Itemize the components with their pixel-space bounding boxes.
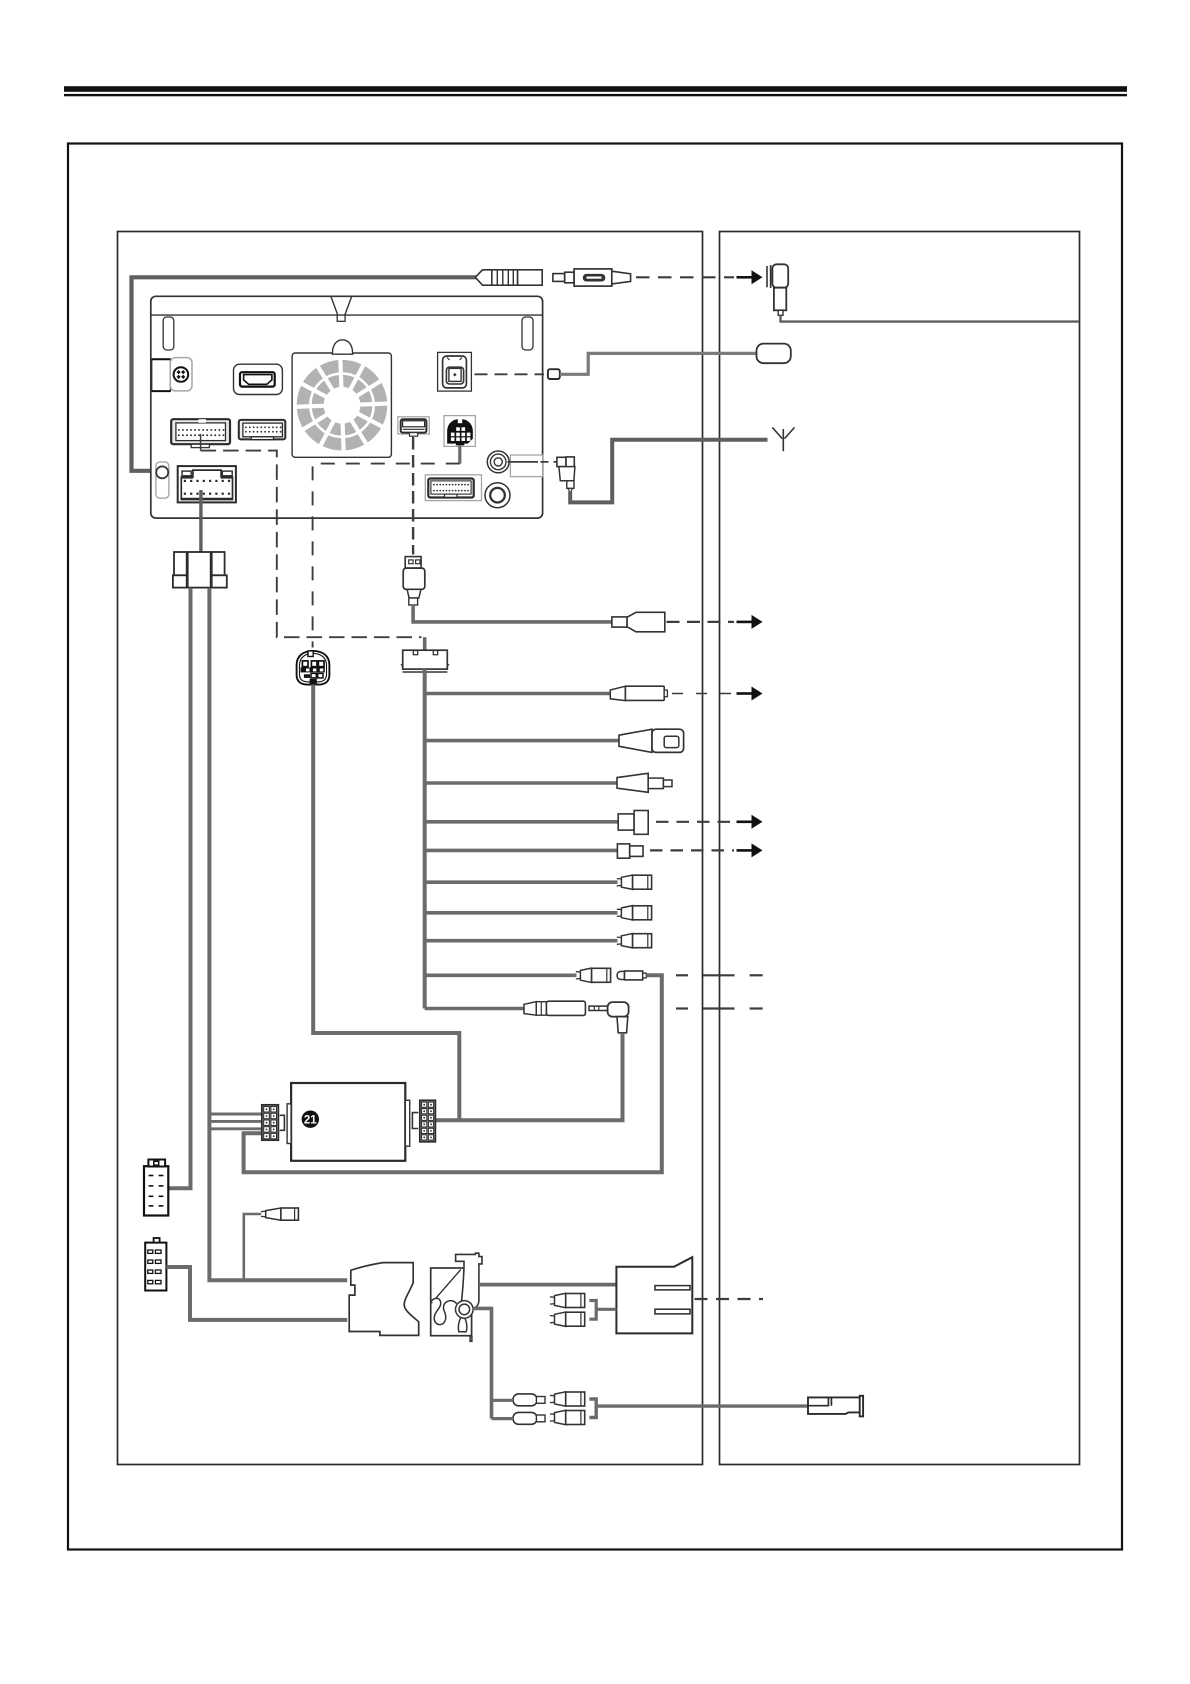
dashed link rear-out: [672, 693, 734, 695]
wire connector F to bracket: [166, 1267, 347, 1320]
antenna plug male: [553, 269, 631, 286]
optical terminal square: [548, 369, 560, 379]
dashed link USB port to USB plug: [412, 437, 414, 555]
wires into block 21 left connector: [208, 1114, 262, 1129]
dashed link power connector: [695, 1298, 764, 1300]
motor antenna connector: [767, 264, 788, 315]
dashed link aux: [676, 1007, 688, 1009]
mini-DIN port: [444, 416, 475, 447]
connector E 8-pin: [144, 1160, 168, 1216]
wire row video-out: [425, 781, 618, 785]
antenna jack socket strip: [156, 462, 169, 498]
arrow to motor antenna: [737, 270, 763, 284]
block 21 left 10-pin connector: [262, 1105, 279, 1140]
block 21 right 12-pin connector: [420, 1100, 436, 1142]
dashed link antenna to motor antenna: [636, 276, 734, 278]
wire row aux jack: [425, 1007, 525, 1011]
bracket assembly left piece: [349, 1263, 419, 1336]
wire motor antenna to panel edge: [781, 315, 1079, 321]
dashed link USB extension: [667, 621, 735, 623]
USB extension connector: [612, 612, 665, 632]
wire to bullet connectors: [492, 1400, 514, 1418]
AV multi connector box: [401, 650, 449, 672]
USB port: [398, 417, 429, 436]
spade pair lower 2: [550, 1410, 585, 1424]
dashed link to antenna adapter: [541, 461, 557, 463]
aux 3.5mm female jack: [524, 1001, 585, 1015]
wire mini-DIN down: [458, 445, 461, 463]
head unit top screw tab: [331, 297, 352, 322]
video out male connector: [617, 773, 672, 792]
dashed link mini-DIN to D-plug: [313, 464, 460, 648]
4-pin connector mount strip: [152, 359, 171, 391]
fan blades: [295, 358, 390, 453]
dashed link remote-out: [650, 849, 734, 851]
spade pair upper 2: [550, 1312, 585, 1326]
sub out label box: [508, 455, 543, 477]
spade connector 1: [617, 875, 652, 889]
wire D-plug down to junction: [313, 685, 459, 1121]
bracket assembly right piece: [431, 1253, 482, 1341]
car antenna symbol: [772, 427, 794, 451]
D-plug steering remote connector: [297, 651, 330, 685]
connector A 24-pin: [171, 419, 230, 447]
aux 3.5mm right-angle plug: [589, 1002, 629, 1033]
block 21 left bracket clip: [280, 1115, 285, 1130]
head unit left bracket notch: [163, 317, 174, 350]
bullet connector 2: [513, 1412, 545, 1424]
block 21 left tab: [287, 1104, 291, 1144]
wire antenna lead from unit jack: [132, 277, 478, 471]
wire fuse plug: [244, 1214, 261, 1280]
head unit right bracket notch: [522, 317, 533, 350]
spade pair lower 1: [550, 1392, 585, 1406]
block 21 right bracket clip: [412, 1113, 418, 1129]
head unit rear panel: [151, 296, 543, 518]
wire USB plug to extension: [413, 605, 612, 622]
head unit top inner line: [151, 314, 542, 316]
svg-text:21: 21: [304, 1115, 317, 1127]
amp remote small plug: [617, 971, 646, 980]
connector F 8-pin: [145, 1238, 166, 1291]
page top rule thin: [64, 94, 1127, 96]
connector C 16-pin: [425, 475, 481, 501]
dashed link connector A to AV box: [200, 434, 202, 451]
fuse plug: [261, 1208, 298, 1220]
RCA jack front out: [487, 451, 509, 473]
wire spade pair lower to speed sensor: [589, 1399, 808, 1418]
amp remote spade connector: [576, 968, 611, 982]
main harness connector D: [178, 466, 236, 502]
wire row spade 3: [425, 939, 618, 943]
arrow USB extension: [737, 615, 763, 629]
interface unit block: [291, 1083, 405, 1161]
mute connector: [618, 811, 648, 835]
left panel box: [118, 232, 703, 1465]
antenna lead female connector: [475, 270, 542, 285]
wire bracket to power connector: [479, 1283, 616, 1287]
spade pair upper 1: [550, 1293, 585, 1307]
wire row mute: [425, 820, 619, 824]
dashed link optical port to terminal: [475, 373, 545, 375]
rear out RCA barrel connector: [610, 686, 667, 700]
connector B 20-pin: [239, 420, 285, 440]
bullet connector 1: [513, 1394, 545, 1406]
4-pin round connector: [170, 358, 192, 391]
speed signal connector: [808, 1396, 863, 1417]
wire harness D to ISO block: [199, 490, 202, 552]
dashed link amp remote: [676, 974, 688, 976]
wire row amp-remote: [425, 973, 577, 977]
fan housing: [292, 340, 391, 458]
remote control unit box: [757, 344, 791, 364]
dashed link mute: [656, 821, 734, 823]
wire right-angle plug to block21: [436, 1033, 623, 1120]
block 21 right tab: [405, 1100, 409, 1146]
right panel box: [720, 232, 1080, 1465]
page top rule thick: [64, 86, 1127, 92]
outer frame: [68, 144, 1122, 1550]
power supply connector: [616, 1257, 692, 1333]
wire row rear-out: [425, 692, 611, 696]
wire optical terminal to remote unit: [560, 353, 757, 374]
wire row spade 2: [425, 911, 618, 915]
arrow rear-out: [737, 687, 763, 701]
spade connector 2: [617, 906, 652, 920]
spade connector 3: [617, 934, 652, 948]
wire ISO left leg: [169, 588, 191, 1188]
antenna jack socket: [156, 466, 168, 478]
wire antenna adapter to car antenna symbol: [570, 440, 767, 503]
wire trunk from AV box: [423, 669, 427, 1008]
label 21: [302, 1111, 319, 1128]
wire amp remote to lower junction: [244, 975, 662, 1172]
RCA jack sub out: [485, 483, 510, 508]
wire row remote-out: [425, 849, 618, 853]
arrow remote-out: [737, 843, 763, 857]
HDMI port: [234, 364, 283, 394]
antenna adapter plug: [557, 457, 575, 492]
optical digital out port: [438, 352, 472, 391]
camera female connector: [619, 729, 684, 752]
USB plug: [403, 557, 425, 605]
wire spade pair to power connector: [589, 1301, 616, 1320]
arrow mute: [737, 815, 763, 829]
ISO block connector: [173, 552, 227, 588]
wire ISO right leg: [209, 588, 347, 1280]
wire bracket lever down: [473, 1308, 492, 1418]
remote out connector: [617, 844, 643, 858]
wire row spade 1: [425, 880, 618, 884]
wire row camera-in: [425, 739, 620, 743]
